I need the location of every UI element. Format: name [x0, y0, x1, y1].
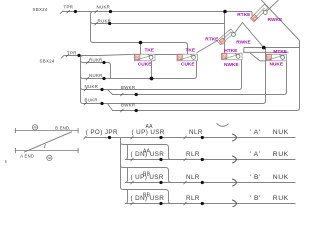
svg-text:BB: BB	[143, 171, 151, 177]
svg-text:RTKE: RTKE	[205, 36, 219, 42]
svg-text:BB: BB	[143, 192, 151, 198]
svg-text:A END: A END	[20, 153, 34, 158]
svg-text:NLR: NLR	[186, 174, 200, 181]
svg-text:RLR: RLR	[186, 195, 200, 202]
svg-text:CUKE: CUKE	[181, 62, 195, 68]
svg-text:SBX24: SBX24	[40, 58, 55, 63]
svg-text:HTKE: HTKE	[224, 48, 238, 54]
svg-text:( UP) USR: ( UP) USR	[132, 129, 165, 136]
svg-text:TPR: TPR	[64, 4, 74, 9]
svg-text:TKE: TKE	[145, 48, 155, 54]
svg-text:AA: AA	[143, 148, 151, 154]
svg-text:SBX24: SBX24	[33, 7, 48, 12]
svg-text:' A': ' A'	[250, 151, 261, 158]
svg-text:RUK: RUK	[273, 151, 289, 158]
svg-text:' B': ' B'	[250, 174, 261, 181]
svg-text:BUKR: BUKR	[85, 98, 98, 103]
svg-text:RTKE: RTKE	[237, 12, 251, 18]
svg-text:RLR: RLR	[186, 151, 200, 158]
svg-text:RUK: RUK	[273, 195, 289, 202]
svg-text:RWKE: RWKE	[236, 39, 251, 45]
svg-text:BWKR: BWKR	[121, 103, 135, 108]
svg-text:' A': ' A'	[250, 129, 261, 136]
svg-text:( PO) JPR: ( PO) JPR	[86, 129, 118, 136]
svg-text:NUKR: NUKR	[89, 73, 103, 78]
svg-text:NUKR: NUKR	[97, 4, 111, 9]
svg-text:B END,: B END,	[55, 126, 70, 131]
svg-text:NUK: NUK	[273, 129, 289, 136]
svg-text:RUKR: RUKR	[89, 57, 103, 62]
svg-text:AA: AA	[146, 124, 154, 130]
svg-text:NWKE: NWKE	[224, 62, 239, 68]
svg-text:NUKE: NUKE	[270, 61, 284, 67]
svg-text:TKE: TKE	[186, 48, 196, 54]
svg-text:MTKE: MTKE	[273, 49, 287, 55]
svg-text:CUKE: CUKE	[138, 62, 152, 68]
svg-text:NUK: NUK	[273, 174, 289, 181]
svg-text:RWKE: RWKE	[268, 17, 283, 23]
svg-text:BWKR: BWKR	[121, 85, 135, 90]
svg-text:' B': ' B'	[250, 195, 261, 202]
svg-text:NLR: NLR	[189, 129, 203, 136]
